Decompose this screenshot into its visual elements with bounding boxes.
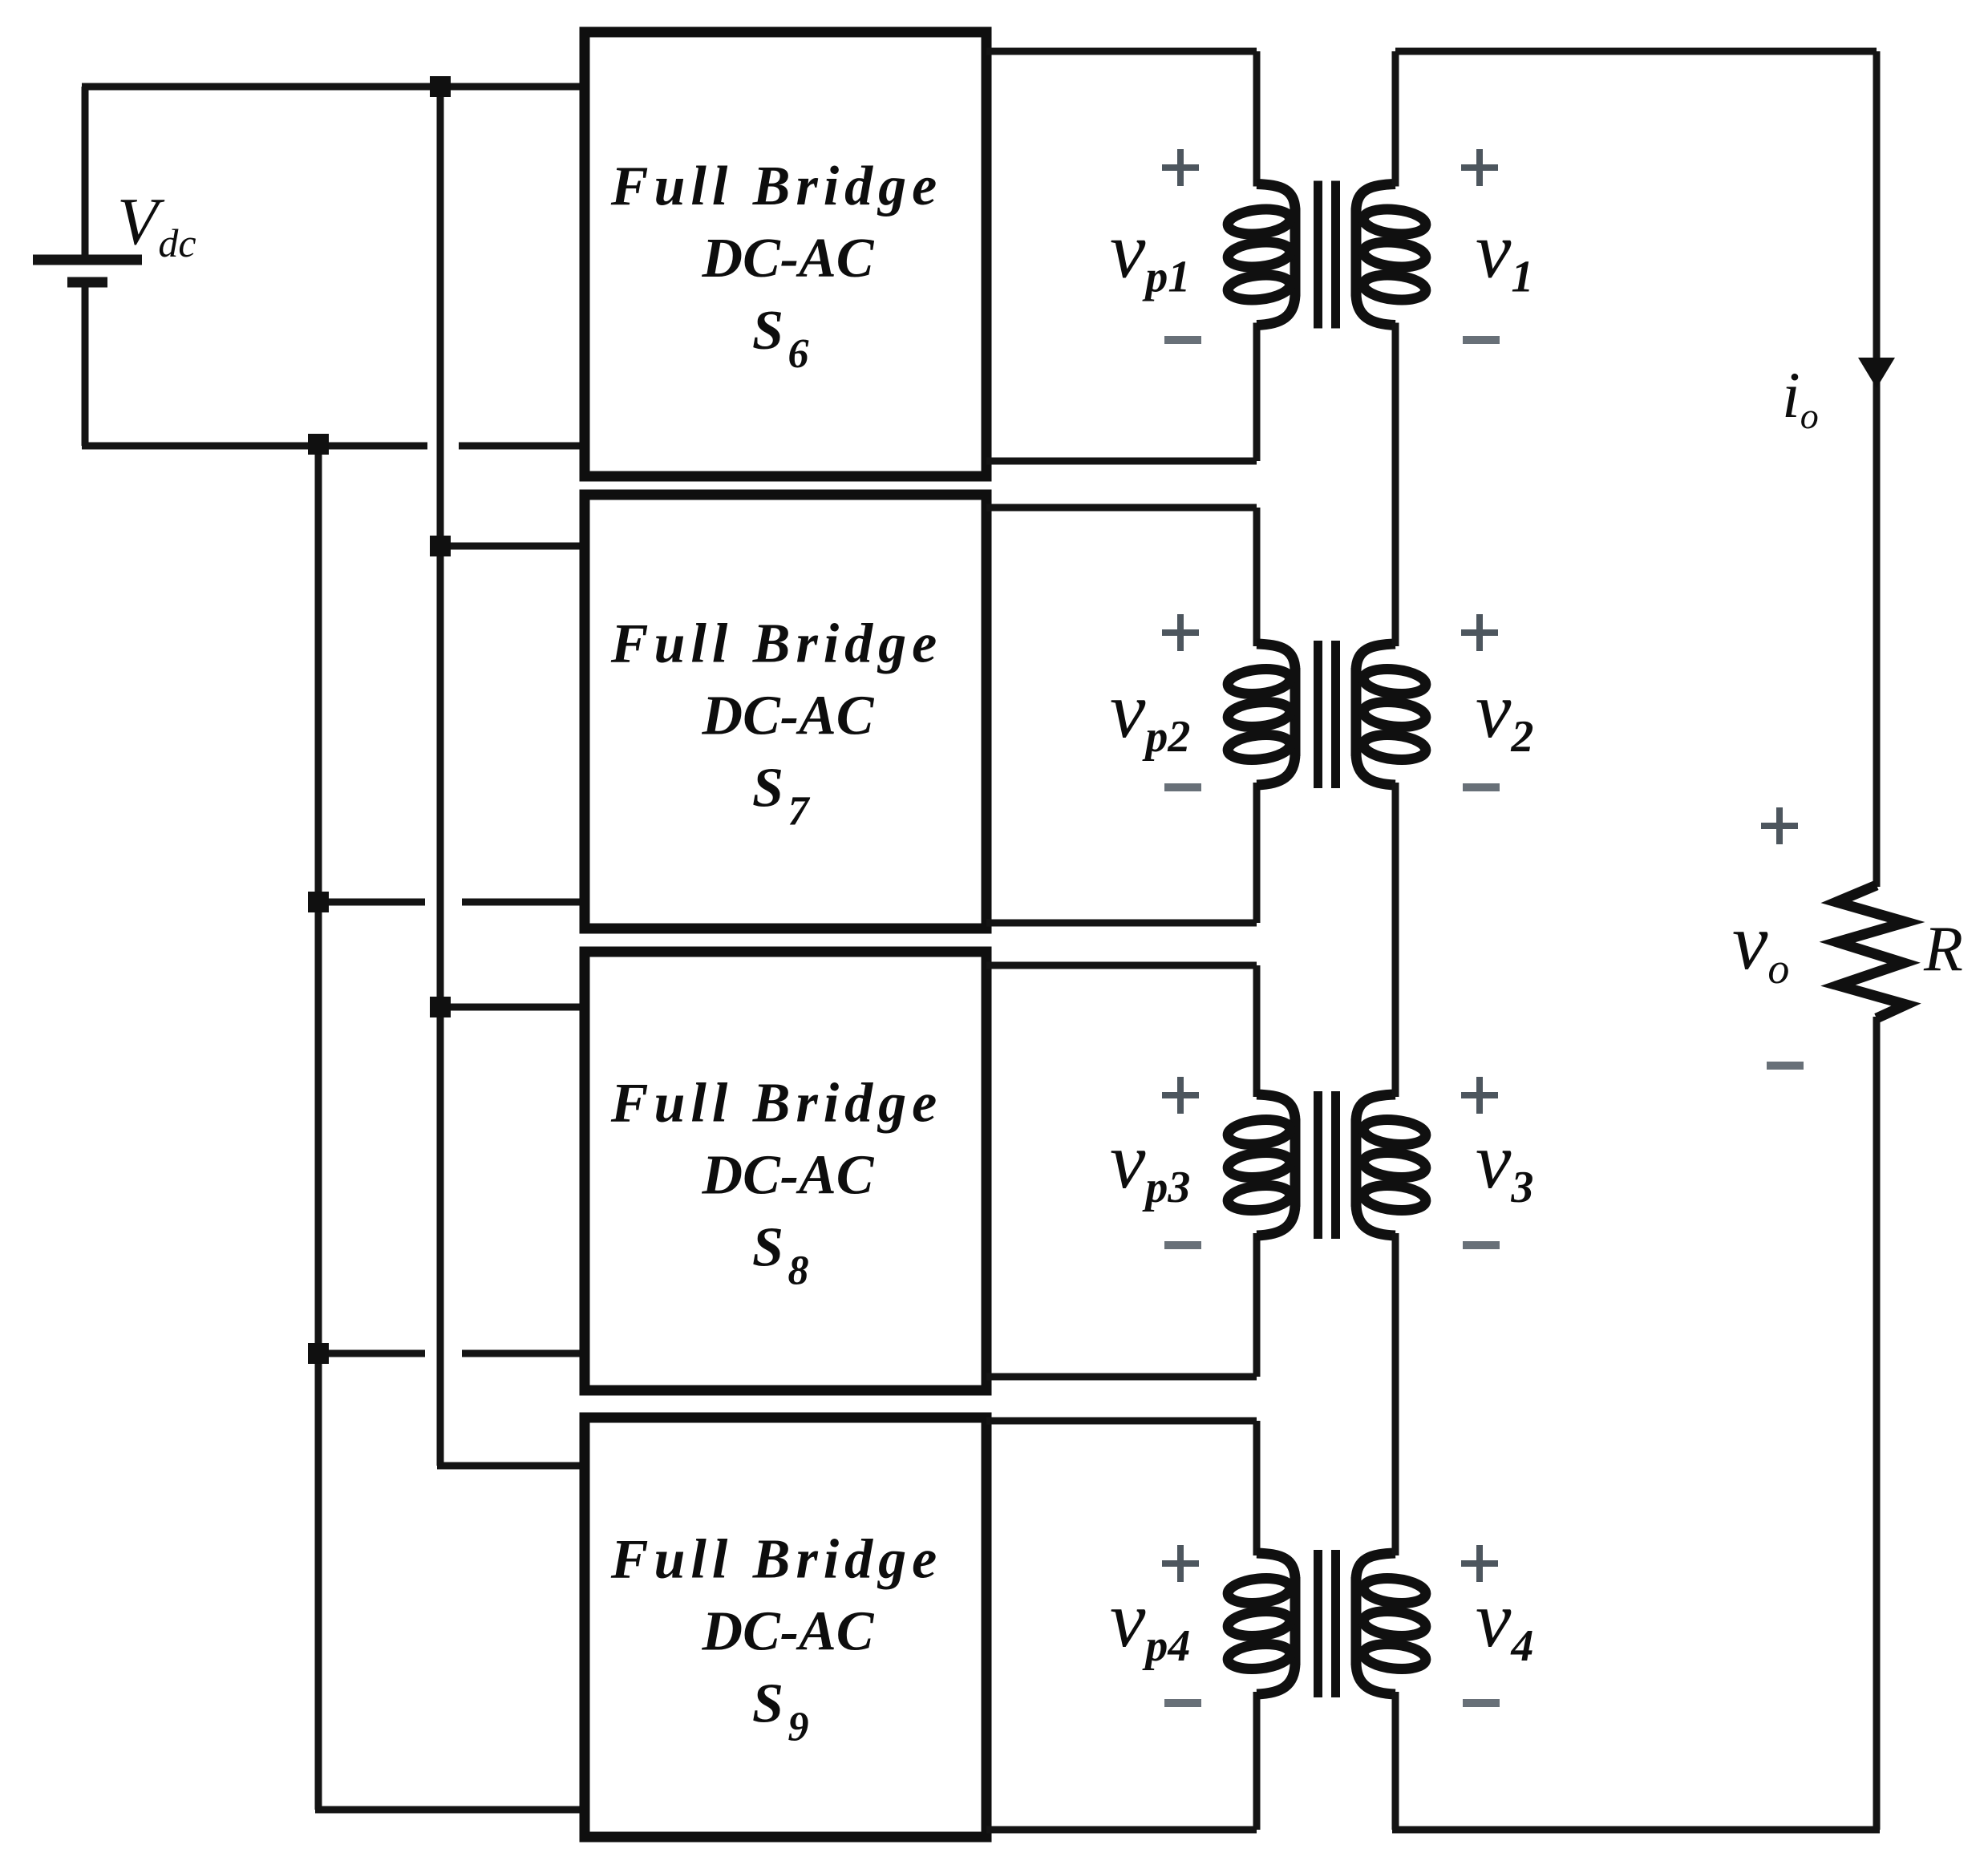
wire FB1 to T1 primary top [986, 48, 1257, 55]
wire FB3 to T3 primary top [986, 962, 1257, 969]
svg-text:9: 9 [788, 1705, 809, 1750]
svg-text:S: S [752, 1217, 783, 1279]
wire bus2 to FB4 upper input [437, 1462, 588, 1470]
wire T1 primary bottom to FB1 [986, 458, 1257, 465]
svg-text:S: S [752, 300, 783, 362]
wire battery - segment to hop [82, 443, 427, 450]
svg-text:DC-AC: DC-AC [702, 1145, 875, 1207]
wire secondary series link T3-T4 [1392, 1233, 1399, 1555]
polarity - secondary T2 [1463, 783, 1500, 791]
polarity - secondary T3 [1463, 1241, 1500, 1249]
transformer T3 primary winding vp3 [1227, 1094, 1295, 1236]
wire T1 secondary upper vertical [1392, 51, 1399, 187]
wire FB2 lower input after hop [462, 899, 588, 906]
svg-text:S: S [752, 1673, 783, 1735]
wire bus2 to FB2 upper input [440, 543, 588, 550]
wire battery - to FB1 lower input [459, 443, 588, 450]
battery Vdc [33, 87, 142, 446]
wire secondary top to right bus [1395, 48, 1877, 55]
wire battery + to FB1 upper input [82, 83, 588, 91]
junction node bus1/battery- [308, 434, 329, 455]
transformer T4 core [1314, 1550, 1322, 1697]
wire T3 primary upper vertical [1253, 965, 1261, 1097]
wire bus1 to FB3 lower input (segment) [318, 1350, 425, 1357]
full-bridge converter block S7 (FB2) [585, 495, 986, 928]
svg-text:6: 6 [788, 331, 809, 377]
right bus upper segment [1873, 51, 1881, 887]
wire T4 secondary lower vertical [1392, 1692, 1399, 1830]
polarity + primary T3 [1162, 1077, 1199, 1114]
polarity - secondary T4 [1463, 1699, 1500, 1707]
junction node bus2/FB3 [430, 997, 451, 1017]
wire FB4 to T4 primary top [986, 1418, 1257, 1425]
wire T3 primary lower vertical [1253, 1233, 1261, 1377]
polarity - secondary T1 [1463, 336, 1500, 344]
wire T4 primary bottom to FB4 [986, 1826, 1257, 1834]
polarity - vo [1767, 1062, 1804, 1070]
svg-text:Full Bridge: Full Bridge [610, 1073, 942, 1135]
junction node bus1/FB2 [308, 892, 329, 912]
full-bridge converter block S9 (FB4) [585, 1418, 986, 1837]
full-bridge converter block S6 (FB1) [585, 32, 986, 476]
transformer T3 core [1314, 1091, 1322, 1239]
transformer T2 primary winding vp2 [1227, 644, 1295, 785]
wire T1 primary lower vertical [1253, 323, 1261, 462]
wire T3 primary bottom to FB3 [986, 1373, 1257, 1381]
wire bus2 to FB3 upper input [440, 1004, 588, 1011]
svg-text:DC-AC: DC-AC [702, 228, 875, 289]
polarity + secondary T1 [1461, 149, 1498, 186]
transformer T4 primary winding vp4 [1227, 1553, 1295, 1694]
wire FB2 to T2 primary top [986, 504, 1257, 512]
transformer T3 secondary winding v3 [1356, 1094, 1427, 1236]
polarity + primary T4 [1162, 1545, 1199, 1582]
transformer T1 secondary winding v1 [1356, 184, 1427, 326]
transformer T1 core [1314, 181, 1322, 329]
vertical bus 2 (positive rail) [437, 87, 444, 1466]
polarity + primary T1 [1162, 149, 1199, 186]
svg-text:R: R [1923, 914, 1963, 985]
polarity - primary T2 [1164, 783, 1201, 791]
polarity + secondary T4 [1461, 1545, 1498, 1582]
wire FB3 lower input after hop [462, 1350, 588, 1357]
wire T4 primary upper vertical [1253, 1421, 1261, 1555]
wire T2 primary upper vertical [1253, 508, 1261, 646]
wire bottom return to right bus [1392, 1826, 1880, 1834]
full-bridge converter block S8 (FB3) [585, 952, 986, 1390]
transformer T2 core [1314, 641, 1322, 788]
wire bus1 to FB4 lower input [315, 1806, 588, 1814]
polarity + primary T2 [1162, 614, 1199, 651]
polarity + vo [1761, 807, 1798, 844]
vertical bus 1 (negative rail) [315, 444, 322, 1810]
svg-text:7: 7 [788, 789, 811, 835]
svg-text:Full Bridge: Full Bridge [610, 613, 942, 675]
polarity + secondary T2 [1461, 614, 1498, 651]
polarity - primary T3 [1164, 1241, 1201, 1249]
polarity - primary T4 [1164, 1699, 1201, 1707]
right bus lower segment [1873, 1017, 1881, 1830]
wire T4 primary lower vertical [1253, 1692, 1261, 1830]
svg-text:DC-AC: DC-AC [702, 1601, 875, 1663]
wire secondary series link T1-T2 [1392, 323, 1399, 647]
junction node bus2/battery+ [430, 76, 451, 97]
wire T2 primary bottom to FB2 [986, 920, 1257, 927]
polarity - primary T1 [1164, 336, 1201, 344]
transformer T4 secondary winding v4 [1356, 1553, 1427, 1694]
transformer T2 secondary winding v2 [1356, 644, 1427, 785]
wire T2 primary lower vertical [1253, 783, 1261, 923]
resistor R [1836, 885, 1906, 1018]
svg-text:S: S [752, 758, 783, 819]
svg-text:DC-AC: DC-AC [702, 686, 875, 747]
svg-text:Full Bridge: Full Bridge [610, 1529, 942, 1591]
junction node bus2/FB2 [430, 536, 451, 556]
svg-text:8: 8 [788, 1248, 809, 1294]
polarity + secondary T3 [1461, 1077, 1498, 1114]
wire bus1 to FB2 lower input (segment) [318, 899, 425, 906]
svg-text:Full Bridge: Full Bridge [610, 156, 942, 217]
transformer T1 primary winding vp1 [1227, 184, 1295, 326]
wire T1 primary upper vertical [1253, 51, 1261, 187]
junction node bus1/FB3 [308, 1343, 329, 1364]
wire secondary series link T2-T3 [1392, 783, 1399, 1097]
current arrow io [1858, 358, 1895, 388]
